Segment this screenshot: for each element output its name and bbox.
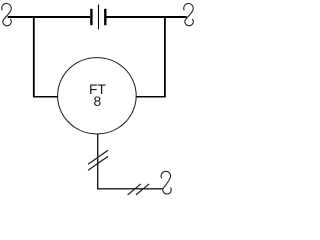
capacitor C1 center line (98, 5, 100, 30)
capacitor C1 right plate (104, 9, 106, 25)
capacitor C1 left plate (90, 9, 92, 25)
node continuation squiggle (top-right) (184, 3, 194, 25)
signal slash marks on vertical wire (88, 150, 108, 170)
wire: left stub to instrument (33, 96, 58, 98)
wire: top-right horizontal (106, 16, 186, 18)
svg-text:8: 8 (94, 94, 102, 109)
wire: bottom horizontal (97, 188, 163, 190)
wire: left vertical dropper (33, 16, 35, 97)
node continuation squiggle (bottom-right) (161, 171, 171, 194)
wire: bottom vertical from instrument (97, 134, 99, 189)
node continuation squiggle (top-left) (2, 3, 12, 25)
signal slash marks on horizontal wire (128, 184, 150, 195)
instrument bubble FT8 (58, 58, 137, 134)
wire: right vertical dropper (164, 16, 166, 97)
wire: top-left horizontal (8, 16, 90, 18)
wire: right stub to instrument (136, 96, 166, 98)
